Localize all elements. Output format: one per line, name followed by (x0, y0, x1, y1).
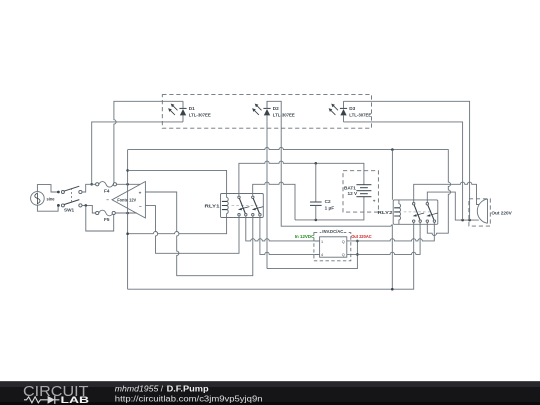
svg-text:sine: sine (47, 196, 55, 201)
wire: bus2 to RLY1 coil top (128, 170, 227, 193)
wire: row5 bottom bus to RLY2 poleA inner (128, 222, 414, 289)
svg-text:D1: D1 (189, 106, 195, 111)
svg-text:1: 1 (321, 240, 323, 244)
svg-text:+: + (139, 190, 142, 195)
relay RLY2 (378, 200, 438, 224)
wire: RLY1 poleA NO to INV pin1 (246, 216, 319, 241)
wire: SW1 pole2 bypass loop to F5 right (86, 205, 114, 231)
svg-text:12 V: 12 V (348, 191, 359, 196)
svg-text:D3: D3 (349, 106, 355, 111)
svg-text:BAT1: BAT1 (344, 186, 356, 191)
wire: D2 anode down to Q riser row (266, 122, 268, 269)
wire: INV Q top output to RLY2 poleB NC (350, 222, 435, 241)
switch SW1 (DPST) (57, 186, 82, 212)
wire: D2 cathode loop down to RLY2 coil bottom (267, 101, 392, 226)
node: Q output junction (356, 240, 359, 243)
wire: SW1 pole1 to fuse F4 (82, 184, 96, 192)
inverter X1 INV.DC/AC (295, 228, 372, 261)
wire: D3 bottom to speaker bus (344, 122, 463, 220)
wire: D3 top to speaker bus (344, 101, 470, 220)
svg-text:Fonte 12V: Fonte 12V (117, 198, 137, 203)
svg-text:−: − (139, 204, 142, 209)
svg-text:LAB: LAB (61, 395, 90, 405)
node: D3 bottom joins speaker bus (461, 219, 464, 222)
wire: D1 cathode top to F4 right (vertical hops D1 anode wire) (114, 101, 183, 182)
svg-text:LTL-307EE: LTL-307EE (273, 113, 295, 118)
wire: RLY2 poleB common to speaker bottom bus (427, 192, 479, 220)
mechanical dashed link (232, 205, 258, 207)
wire: INV Q bottom output to RLY2 poleA NC (350, 222, 420, 254)
wire: sine bottom to SW1 pole2 (37, 205, 58, 211)
LED D2 (253, 101, 295, 122)
wire: F5 right to Fonte input (junction with bus) (115, 212, 136, 214)
wire: RLY1 poleB NO to INV pin4 (260, 216, 319, 255)
LED D3 (329, 101, 371, 122)
svg-text:Out 220V: Out 220V (491, 210, 512, 215)
wire: RLY2 coil bottom down to row5 (391, 224, 393, 289)
battery BAT1 with dashed box (343, 171, 378, 212)
wire: line1 top bus (Fonte area to far right, down to RLY2 pole B) (128, 147, 451, 235)
wire: SW1 pole2 junction to F5 left (82, 205, 96, 213)
node: bus junction at bus2 (126, 169, 129, 172)
pole B (252, 196, 254, 198)
svg-text:http://circuitlab.com/c3jm9vp5: http://circuitlab.com/c3jm9vp5yjq9n (115, 395, 263, 404)
pole B (426, 203, 428, 205)
node: line1 to RLY2 coil top (391, 148, 394, 151)
node: bus junction at row1 (126, 232, 129, 235)
node: bus junction at F5 wire (126, 212, 129, 215)
node: D3 top joins speaker bus (468, 219, 471, 222)
svg-text:mhmd1955: mhmd1955 (115, 385, 159, 394)
svg-text:C2: C2 (325, 199, 331, 204)
coil (227, 194, 229, 218)
svg-text:INV.DC/AC: INV.DC/AC (322, 229, 344, 234)
wire: RLY2 coil top riser (391, 150, 393, 200)
svg-text:LTL-307EE: LTL-307EE (189, 113, 211, 118)
svg-text:LTL-307EE: LTL-307EE (349, 113, 371, 118)
svg-text:RLY2: RLY2 (378, 210, 393, 215)
fuse F4 (96, 182, 117, 194)
wire: Fonte + output down to row3 and up to RLY1 poleB inner (145, 192, 252, 276)
wire: D2 anode row to INV outputs riser (267, 241, 357, 269)
node: Q-bar output junction (356, 253, 359, 256)
footer bar (0, 381, 540, 405)
svg-text:Out 220AC: Out 220AC (351, 234, 372, 239)
svg-text:−: − (106, 198, 109, 203)
svg-text:In 12VDC: In 12VDC (295, 234, 315, 239)
svg-text:1 µF: 1 µF (325, 206, 335, 211)
power supply U1 Fonte 12V (triangle) (106, 182, 145, 219)
svg-text:Q: Q (342, 253, 345, 257)
svg-text:D2: D2 (273, 106, 279, 111)
node: C2 bottom junction (315, 219, 318, 222)
LED group dashed box (162, 95, 371, 129)
relay RLY1 (205, 194, 264, 218)
pole A (413, 203, 415, 205)
capacitor C2 (310, 163, 334, 220)
wire: line2 RLY1 poleA common up and right to BAT1 top (239, 161, 364, 196)
wire: row1 bus to RLY1 coil bottom (128, 218, 227, 234)
svg-text:Q: Q (342, 240, 345, 244)
wire: vertical bus from line1 down left of Fonte (127, 150, 129, 290)
svg-text:D.F.Pump: D.F.Pump (167, 385, 209, 394)
wire: Fonte - output down to row2 and up to RLY1 poleA inner (145, 206, 239, 254)
svg-text:4: 4 (321, 253, 323, 257)
svg-text:+: + (373, 199, 376, 204)
node: RLY2 coil bottom joins row5 (391, 288, 394, 291)
fuse F5 (96, 210, 116, 222)
svg-text:F4: F4 (104, 189, 110, 194)
node: line2 to C2 top (315, 162, 318, 165)
wire: sine top to SW1 pole1 (37, 185, 58, 192)
wire: RLY1 poleB common up and right, down to C2/BAT bottom bus (253, 182, 295, 220)
node: junction SW1-F4-D1 (90, 183, 93, 186)
wire: RLY2 poleA common to speaker top (414, 182, 480, 204)
pole A (238, 196, 240, 198)
speaker Out 220V (469, 199, 513, 226)
svg-text:F5: F5 (104, 217, 110, 222)
wire: F4 right to Fonte input (junction with bus) (117, 183, 141, 185)
voltage source V1 sine (31, 192, 55, 206)
LED D1 (169, 101, 211, 122)
logo zigzag + diode (24, 397, 48, 403)
svg-text:RLY1: RLY1 (205, 203, 220, 208)
svg-text:SW1: SW1 (64, 208, 75, 213)
wire: D1 anode bottom to SW1/F4 junction (92, 122, 183, 184)
wire: C2 bottom bus to BAT1 bottom (295, 197, 364, 220)
